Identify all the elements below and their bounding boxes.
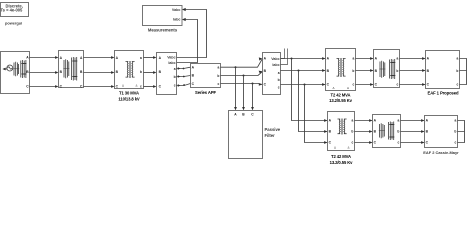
svg-text:c: c bbox=[352, 140, 354, 144]
Measurements subsystem block bbox=[143, 6, 183, 26]
svg-text:b: b bbox=[140, 70, 142, 74]
svg-text:b: b bbox=[174, 75, 176, 79]
svg-text:b: b bbox=[396, 69, 398, 73]
wire T2b a to RL2 A bbox=[355, 120, 372, 122]
VI1 c to APF C connector bbox=[177, 84, 191, 86]
wire Vabc to Measurements bbox=[177, 10, 207, 58]
transformer T2 (top) bbox=[326, 49, 356, 91]
wire Z1 c to T1 C bbox=[84, 86, 113, 88]
svg-text:Ts = 4e-005: Ts = 4e-005 bbox=[0, 8, 23, 13]
wire T2a c to RL1 C bbox=[356, 84, 373, 86]
wire drop B to T2b bbox=[299, 71, 327, 132]
wire APF c to VI2 C bbox=[221, 84, 263, 85]
wire Z1 b to T1 B bbox=[84, 72, 113, 74]
junction node phase A feed bbox=[291, 58, 293, 60]
three-phase RL branch block RL2 bbox=[373, 115, 401, 148]
svg-text:a: a bbox=[353, 56, 355, 60]
svg-text:c: c bbox=[457, 82, 459, 86]
wire T2a a to RL1 A bbox=[356, 58, 373, 60]
svg-text:Series APF: Series APF bbox=[195, 90, 216, 95]
wire source B to Z1 bbox=[30, 72, 57, 74]
wire RL2 c to EAF2 C bbox=[401, 142, 424, 144]
three-phase source block bbox=[1, 52, 30, 94]
wire RL2 b to EAF2 B bbox=[401, 131, 424, 133]
svg-text:a: a bbox=[457, 56, 459, 60]
source winding cluster 1 bbox=[13, 62, 19, 76]
arrowhead into Measurements Iabc bbox=[182, 18, 186, 21]
svg-text:a: a bbox=[455, 118, 457, 122]
RL2 winding cluster 1 bbox=[379, 123, 385, 138]
svg-text:powergui: powergui bbox=[5, 20, 22, 25]
junction node phase B feed bbox=[298, 70, 300, 72]
svg-text:T2 42 MVA: T2 42 MVA bbox=[331, 154, 351, 159]
T1 winding icon bbox=[126, 61, 135, 78]
wire RL1 a to EAF1 A bbox=[400, 58, 425, 60]
source winding cluster 2 bbox=[21, 60, 27, 78]
EAF 1 block bbox=[426, 51, 460, 89]
junction node on phase C bbox=[252, 83, 254, 85]
svg-text:T2 42 MVA: T2 42 MVA bbox=[331, 93, 351, 98]
svg-text:c: c bbox=[353, 82, 355, 86]
svg-text:Δ: Δ bbox=[334, 145, 336, 149]
wire VI2 a to T2a A bbox=[281, 58, 325, 60]
wire drop B to passive filter bbox=[243, 76, 245, 109]
junction node on phase B bbox=[243, 75, 245, 77]
wire drop C to T2b bbox=[305, 85, 327, 143]
svg-text:b: b bbox=[278, 78, 280, 82]
VI1 b to APF B connector bbox=[177, 76, 191, 77]
svg-text:a: a bbox=[140, 56, 142, 60]
wire T1 b to VI1 B bbox=[144, 72, 155, 74]
source AC circle with sine bbox=[7, 65, 13, 71]
powergui block U0 bbox=[0, 3, 28, 17]
wire Z1 a to T1 A bbox=[84, 57, 113, 59]
Z1 winding cluster 1 bbox=[63, 59, 69, 78]
source left lead with arrow bbox=[3, 68, 6, 70]
wire T2b c to RL2 C bbox=[355, 142, 372, 144]
wire source C to Z1 bbox=[30, 86, 57, 88]
wire APF a to VI2 A bbox=[221, 59, 263, 68]
svg-text:13.2/0.55 Kv: 13.2/0.55 Kv bbox=[329, 98, 353, 103]
arrowhead into Measurements Vabc bbox=[182, 8, 186, 11]
svg-text:Iabc: Iabc bbox=[272, 63, 279, 67]
svg-text:a: a bbox=[398, 118, 400, 122]
Passive Filter block bbox=[229, 111, 263, 159]
wire VI2 b to T2a B bbox=[281, 70, 325, 72]
three-phase RL branch block RL1 bbox=[374, 50, 400, 88]
EAF2 output short-circuit loop wire bbox=[458, 121, 465, 143]
svg-text:Passive: Passive bbox=[265, 127, 281, 132]
svg-text:Measurements: Measurements bbox=[148, 27, 178, 32]
svg-text:a: a bbox=[397, 56, 399, 60]
svg-text:a: a bbox=[352, 118, 354, 122]
junction node phase C feed bbox=[304, 84, 306, 86]
wire T1 c to VI1 C bbox=[144, 86, 155, 88]
svg-text:EAF 2 Cassie-Mayr: EAF 2 Cassie-Mayr bbox=[423, 150, 459, 155]
RL2 winding cluster 2 bbox=[389, 122, 395, 141]
svg-text:a: a bbox=[174, 67, 176, 71]
svg-text:Δ: Δ bbox=[348, 145, 350, 149]
transformer T1 bbox=[115, 51, 144, 89]
T2 top winding icon bbox=[337, 58, 346, 77]
three-phase impedance block Z1 bbox=[59, 51, 84, 89]
svg-text:Δ: Δ bbox=[136, 83, 138, 87]
RL1 winding cluster 1 bbox=[379, 61, 385, 78]
RL1 winding cluster 2 bbox=[390, 59, 396, 79]
svg-text:110/13.8 kV: 110/13.8 kV bbox=[118, 96, 140, 101]
svg-text:c: c bbox=[397, 82, 399, 86]
EAF1 output short-circuit loop wire bbox=[460, 59, 467, 85]
svg-text:EAF 1 Proposed: EAF 1 Proposed bbox=[428, 90, 459, 95]
T2 bottom winding icon bbox=[338, 119, 347, 135]
wire T1 a to VI1 A bbox=[144, 57, 155, 59]
wire RL2 a to EAF2 A bbox=[401, 120, 424, 122]
svg-text:Vabc: Vabc bbox=[167, 55, 175, 59]
svg-text:b: b bbox=[454, 129, 456, 133]
wire VI2 c to T2a C bbox=[281, 84, 325, 86]
wire APF b to VI2 B bbox=[221, 72, 263, 76]
wire RL1 c to EAF1 C bbox=[400, 84, 425, 86]
svg-text:b: b bbox=[352, 69, 354, 73]
svg-text:Iabc: Iabc bbox=[168, 61, 175, 65]
svg-text:Δ: Δ bbox=[333, 86, 335, 90]
svg-text:c: c bbox=[174, 83, 176, 87]
wire source A to Z1 bbox=[30, 57, 57, 59]
three-phase V-I measurement VI2 bbox=[263, 53, 281, 95]
svg-text:T1 30 MVA: T1 30 MVA bbox=[119, 90, 139, 95]
svg-text:b: b bbox=[351, 129, 353, 133]
svg-text:13.2/0.55 Kv: 13.2/0.55 Kv bbox=[330, 160, 354, 165]
svg-text:c: c bbox=[218, 82, 220, 86]
svg-text:Vabc: Vabc bbox=[172, 8, 181, 12]
svg-text:Filter: Filter bbox=[265, 133, 276, 138]
svg-text:c: c bbox=[140, 84, 142, 88]
VI2 Iabc stub wire bbox=[281, 49, 288, 65]
svg-text:b: b bbox=[397, 129, 399, 133]
wire RL1 b to EAF1 B bbox=[400, 70, 425, 72]
wire T2b b to RL2 B bbox=[355, 131, 372, 133]
svg-text:Iabc: Iabc bbox=[173, 18, 180, 22]
svg-text:b: b bbox=[217, 74, 219, 78]
VI1 a to APF A connector bbox=[177, 67, 191, 68]
svg-text:Δ: Δ bbox=[347, 86, 349, 90]
svg-text:c: c bbox=[278, 85, 280, 89]
wire drop A to T2b bbox=[292, 59, 327, 121]
svg-text:c: c bbox=[398, 140, 400, 144]
wire Iabc to Measurements bbox=[177, 20, 198, 63]
Series APF block bbox=[191, 64, 221, 88]
svg-text:a: a bbox=[218, 65, 220, 69]
junction node on phase A bbox=[235, 66, 237, 68]
Z1 winding cluster 2 bbox=[72, 57, 78, 81]
svg-text:a: a bbox=[278, 71, 280, 75]
svg-text:c: c bbox=[455, 140, 457, 144]
svg-text:Δ: Δ bbox=[122, 83, 124, 87]
wire drop C to passive filter bbox=[252, 84, 254, 109]
wire T2a b to RL1 B bbox=[356, 70, 373, 72]
VI2 Vabc stub wire bbox=[281, 49, 285, 59]
EAF 2 block bbox=[425, 116, 458, 148]
transformer T2 (bottom) bbox=[328, 112, 355, 151]
svg-text:b: b bbox=[456, 69, 458, 73]
wire drop A to passive filter bbox=[235, 67, 237, 108]
three-phase V-I measurement VI1 bbox=[157, 53, 177, 95]
svg-text:Vabc: Vabc bbox=[271, 57, 279, 61]
